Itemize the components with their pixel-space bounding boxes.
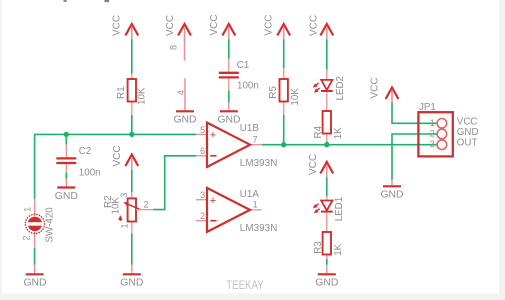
wire output net (U1B pin 7 to JP1 pin 3) [262,144,438,146]
power VCC arrow (R5) [264,14,290,39]
svg-text:3: 3 [200,190,205,200]
svg-text:LED1: LED1 [334,197,345,222]
junction dot net A / R1 [129,132,134,137]
svg-text:U1B: U1B [240,123,260,134]
ground GND (C1) [217,102,240,126]
capacitor C2 100n [56,134,100,178]
svg-text:8: 8 [169,45,179,50]
wire R2 to GND [131,233,133,264]
svg-text:10K: 10K [290,88,301,106]
svg-text:10K: 10K [137,87,148,105]
wire VCC to LED1 [326,178,328,197]
wire VCC to R2 [131,170,133,192]
svg-text:GND: GND [55,191,78,202]
wire C2 to GND [65,173,67,179]
svg-text:VCC: VCC [165,15,176,36]
power VCC arrow (R1 column) [112,15,139,40]
wire net A horizontal (SW-420 / C2 / R1 to U1B pin 5) [35,134,196,199]
svg-text:GND: GND [457,127,479,138]
svg-text:100n: 100n [79,168,101,179]
svg-text:GND: GND [380,190,403,201]
svg-text:+: + [210,195,216,207]
svg-text:VCC: VCC [209,14,220,35]
svg-text:JP1: JP1 [419,102,436,113]
resistor R5 10K [268,68,301,115]
svg-text:100n: 100n [237,81,259,92]
op-amp U1A LM393N [196,188,277,234]
ground GND (R3) [315,265,338,289]
svg-text:C2: C2 [79,146,92,157]
svg-text:R1: R1 [116,86,127,99]
wire R4 to output net [326,142,328,145]
svg-text:R4: R4 [313,125,324,138]
svg-text:SW-420: SW-420 [45,207,56,243]
svg-text:1: 1 [23,207,33,212]
trimmer R2 10K [103,192,153,233]
ground GND (JP1) [380,180,403,201]
svg-text:R3: R3 [313,241,324,254]
wire C1 to GND [228,91,230,103]
svg-text:1: 1 [430,118,435,128]
svg-text:VCC: VCC [112,145,123,166]
svg-text:2: 2 [143,200,148,210]
resistor R3 1K [313,213,344,259]
svg-text:VCC: VCC [457,116,478,127]
junction dot output / R4 [324,142,329,147]
capacitor C1 100n [219,59,259,92]
ground GND (R2) [120,265,143,289]
vibration switch SW-420 [22,199,56,247]
diode LED1 [314,196,345,221]
svg-text:GND: GND [23,278,46,289]
svg-text:GND: GND [173,115,196,126]
power VCC arrow (LED2) [309,15,334,40]
resistor R4 1K [313,92,344,142]
cropped text remnant top edge [64,0,110,2]
svg-text:GND: GND [120,278,143,289]
svg-text:1K: 1K [333,127,344,139]
IC power pin 4 [176,78,186,111]
svg-text:5: 5 [200,125,205,135]
svg-text:GND: GND [217,115,240,126]
power VCC arrow (JP1) [370,77,399,103]
svg-text:2: 2 [22,236,32,241]
wire VCC to JP1 pin 1 [392,103,437,123]
wire R3 to GND [326,259,328,265]
svg-text:LED2: LED2 [335,76,346,101]
svg-text:+: + [210,130,216,142]
svg-text:OUT: OUT [457,138,478,149]
op-amp U1B LM393N [196,123,277,170]
svg-text:2: 2 [430,129,435,139]
svg-text:3: 3 [430,139,435,149]
svg-text:7: 7 [253,134,258,144]
wire VCC to C1 [228,40,230,59]
wire VCC to LED2 [326,40,328,70]
svg-text:VCC: VCC [309,15,320,36]
svg-text:1K: 1K [333,243,344,255]
svg-text:LM393N: LM393N [240,223,277,234]
wire VCC to R1 [131,40,133,74]
svg-text:6: 6 [200,146,205,156]
wire R2 wiper to U1B pin 6 [153,156,196,210]
power VCC arrow (LED1) [308,154,333,178]
svg-text:VCC: VCC [308,154,319,175]
diode LED2 [314,70,346,101]
svg-text:2: 2 [200,211,205,221]
wire SW-420 to GND [34,248,36,265]
connector JP1 [418,102,478,157]
svg-text:1: 1 [253,200,258,210]
svg-text:LM393N: LM393N [240,158,277,169]
ground GND (C2) [55,179,78,202]
power VCC arrow (R2) [112,145,138,170]
wire VCC to R5 [283,40,285,69]
power VCC arrow (C1) [209,14,235,39]
svg-text:VCC: VCC [370,77,381,98]
svg-text:3: 3 [119,193,129,198]
IC power pin 8 [169,40,185,61]
svg-text:C1: C1 [237,60,250,71]
svg-text:U1A: U1A [240,189,260,200]
svg-text:10K: 10K [111,197,122,215]
ground GND (SW-420) [23,265,46,289]
svg-text:GND: GND [315,278,338,289]
svg-text:R5: R5 [268,86,279,99]
resistor R1 10K [116,74,148,116]
wire JP1 pin 2 to GND [392,134,437,180]
svg-text:4: 4 [176,90,186,95]
junction dot net A / C2 [64,132,69,137]
svg-text:1: 1 [120,223,130,228]
power VCC arrow (IC pin 8) [165,15,191,40]
svg-text:TEEKAY: TEEKAY [226,278,264,292]
svg-text:VCC: VCC [264,14,275,35]
wire R5 to output net [283,115,285,145]
ground GND (pin 4) [173,111,196,125]
junction dot output / R5 [281,142,286,147]
wire R1 to net A [131,115,133,134]
svg-text:VCC: VCC [112,15,123,36]
